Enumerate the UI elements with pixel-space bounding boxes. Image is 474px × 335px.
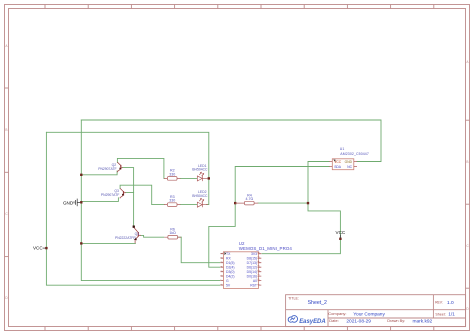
svg-text:PN2222ATFR: PN2222ATFR [115, 236, 136, 240]
svg-text:B: B [5, 128, 7, 132]
svg-text:VCC: VCC [336, 230, 346, 235]
svg-text:330: 330 [169, 172, 175, 176]
svg-text:PN2907ATF: PN2907ATF [101, 193, 119, 197]
svg-text:Sheet_2: Sheet_2 [308, 300, 327, 306]
svg-text:AM2302_C50447: AM2302_C50447 [340, 152, 369, 156]
svg-text:EasyEDA: EasyEDA [299, 319, 326, 325]
svg-text:WEMOS_D1_MINI_PRO4: WEMOS_D1_MINI_PRO4 [239, 246, 293, 251]
svg-text:D3(0): D3(0) [226, 270, 234, 274]
svg-text:NC: NC [347, 165, 352, 169]
svg-text:D0(16): D0(16) [247, 274, 257, 278]
svg-text:BH504CC: BH504CC [192, 194, 208, 198]
svg-text:BH504CC: BH504CC [192, 168, 208, 172]
svg-text:A0: A0 [253, 279, 257, 283]
svg-text:U1: U1 [340, 147, 345, 151]
svg-text:GND: GND [345, 160, 353, 164]
svg-text:D8(15): D8(15) [247, 257, 257, 261]
svg-text:D2(4): D2(4) [226, 266, 234, 270]
svg-text:D1(5): D1(5) [226, 261, 234, 265]
svg-text:1/1: 1/1 [448, 312, 455, 317]
svg-text:D5(14): D5(14) [247, 270, 257, 274]
svg-text:PN2907ATF: PN2907ATF [98, 167, 116, 171]
svg-text:5V: 5V [226, 283, 231, 287]
svg-text:RST: RST [250, 283, 257, 287]
svg-text:Sheet:: Sheet: [435, 312, 445, 316]
svg-text:SDA: SDA [334, 165, 342, 169]
svg-text:1kΩ: 1kΩ [169, 231, 176, 235]
svg-text:GND: GND [63, 200, 74, 205]
svg-text:Company:: Company: [328, 311, 346, 316]
svg-text:VCC: VCC [33, 246, 43, 251]
svg-text:TITLE:: TITLE: [288, 296, 299, 300]
svg-text:Drawn By:: Drawn By: [387, 318, 405, 323]
svg-text:B: B [466, 160, 468, 164]
svg-text:mark.k92: mark.k92 [413, 318, 433, 324]
svg-text:G: G [226, 279, 229, 283]
svg-text:D4(2): D4(2) [226, 274, 234, 278]
svg-text:2021-08-29: 2021-08-29 [346, 318, 371, 324]
svg-text:D7(13): D7(13) [247, 261, 257, 265]
svg-text:1.0: 1.0 [447, 300, 454, 306]
svg-text:D6(12): D6(12) [247, 266, 257, 270]
svg-text:TX: TX [226, 252, 231, 256]
svg-text:RX: RX [226, 257, 231, 261]
svg-text:4.7Ω: 4.7Ω [246, 197, 254, 201]
svg-text:3V3: 3V3 [251, 252, 257, 256]
svg-text:REV:: REV: [435, 301, 443, 305]
svg-text:VCC: VCC [334, 160, 342, 164]
svg-text:330: 330 [169, 199, 175, 203]
svg-text:Date:: Date: [329, 318, 339, 323]
svg-text:Your Company: Your Company [353, 311, 385, 317]
